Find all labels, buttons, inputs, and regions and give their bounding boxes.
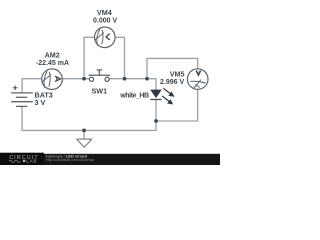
svg-text:http://circuitlab.com/c6dahqu: http://circuitlab.com/c6dahqu bbox=[46, 158, 94, 162]
svg-text:VM5: VM5 bbox=[170, 69, 185, 78]
svg-text:0.000 V: 0.000 V bbox=[93, 17, 117, 24]
svg-text:VM4: VM4 bbox=[97, 8, 112, 17]
svg-text:3 V: 3 V bbox=[35, 98, 46, 107]
svg-text:2.996 V: 2.996 V bbox=[160, 79, 184, 86]
svg-text:AM2: AM2 bbox=[45, 51, 60, 60]
svg-text:SW1: SW1 bbox=[92, 87, 108, 96]
svg-text:-22.45 mA: -22.45 mA bbox=[36, 60, 69, 67]
svg-text:white_HB: white_HB bbox=[119, 93, 149, 100]
svg-text:LAB: LAB bbox=[26, 158, 37, 163]
